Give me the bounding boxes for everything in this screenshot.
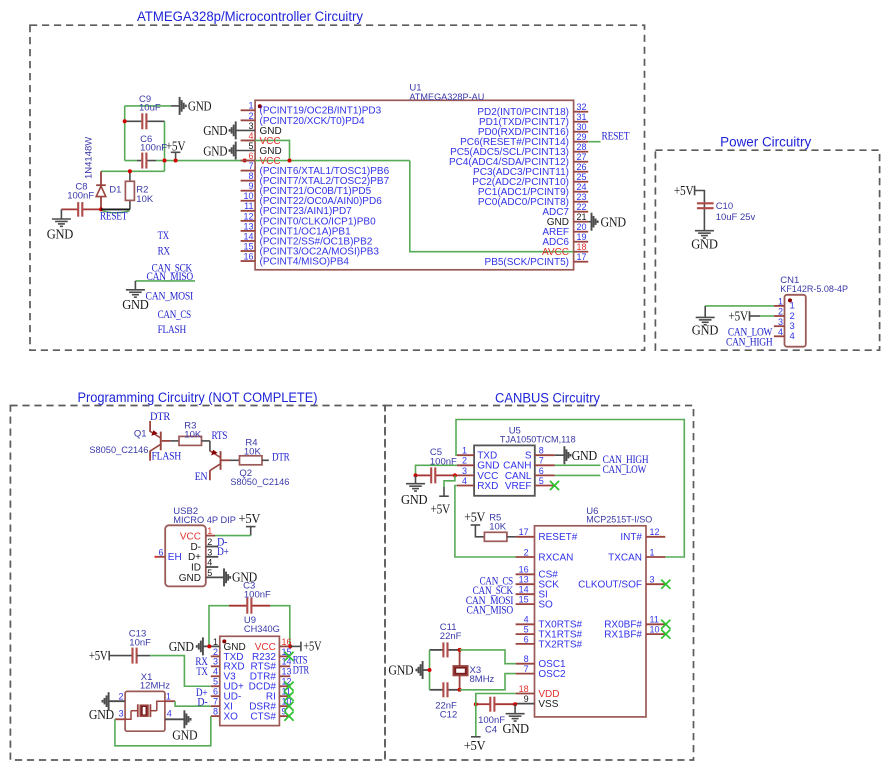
- ground GND (C5 left): [415, 475, 417, 483]
- svg-text:RTS: RTS: [212, 428, 228, 442]
- svg-text:8: 8: [524, 654, 529, 664]
- U6 pin 17 RESET#: [516, 536, 535, 538]
- svg-text:+5V: +5V: [239, 511, 261, 526]
- U9 pin 5 UD+: [211, 685, 220, 687]
- ground GND (CAN_MISO wire): [134, 281, 136, 290]
- svg-text:FLASH: FLASH: [158, 322, 187, 336]
- wire C13 to U9 UD+ (green): [150, 656, 211, 687]
- svg-text:17: 17: [519, 527, 529, 537]
- svg-text:12: 12: [650, 527, 660, 537]
- U6 pin 4 TX0RTS#: [516, 623, 535, 625]
- svg-text:+5V: +5V: [464, 510, 486, 525]
- svg-text:15: 15: [519, 595, 529, 605]
- U5 pin 8 S: [535, 454, 555, 456]
- U1 pin 31 PD1(TXD/PCINT17): [574, 121, 589, 123]
- U5 pin 6 CANL: [535, 474, 555, 476]
- U9 pin 2 TXD: [211, 655, 220, 657]
- svg-text:+5V: +5V: [464, 738, 486, 753]
- svg-text:GND: GND: [601, 215, 627, 230]
- svg-text:CAN_HIGH: CAN_HIGH: [726, 335, 773, 349]
- wire X1 pin3 to U9 XO (green): [115, 716, 211, 746]
- power +5V (U5 VCC): [444, 475, 455, 487]
- svg-text:10K: 10K: [244, 447, 262, 458]
- svg-text:GND: GND: [503, 721, 530, 736]
- svg-text:RX: RX: [158, 243, 171, 257]
- USB2 pin 4 ID: [206, 566, 219, 568]
- U1 pin 15 (PCINT3/OC2A/MOSI)PB3: [241, 250, 256, 252]
- svg-text:20: 20: [577, 222, 587, 232]
- svg-text:16: 16: [243, 251, 253, 261]
- svg-text:FLASH: FLASH: [152, 448, 182, 462]
- svg-text:2: 2: [207, 537, 212, 547]
- X1 crystal element: [131, 710, 137, 712]
- U1 pin 29 PC6(RESET#/PCINT14): [574, 141, 589, 143]
- diode D1 1N4148W: [100, 171, 102, 185]
- svg-text:28: 28: [577, 142, 587, 152]
- svg-text:13: 13: [243, 221, 253, 231]
- wire +5V to C4/VDD (green): [476, 694, 516, 737]
- wire +5V rail to U1 VCC pins (green): [124, 106, 126, 161]
- U1 pin 28 PC5(ADC5/SCL/PCINT13): [574, 151, 589, 153]
- ground GND (X1 pin4): [183, 710, 185, 728]
- U1 pin 20 AREF: [574, 231, 589, 233]
- svg-text:7: 7: [248, 161, 253, 171]
- svg-text:CAN_MOSI: CAN_MOSI: [146, 289, 194, 303]
- svg-text:2: 2: [248, 111, 253, 121]
- svg-text:3: 3: [207, 547, 212, 557]
- CN1 pin 1: [774, 305, 785, 307]
- svg-text:9: 9: [524, 694, 529, 704]
- svg-text:GND: GND: [89, 707, 115, 722]
- svg-text:CTS#: CTS#: [250, 712, 276, 723]
- svg-text:GND: GND: [179, 573, 201, 584]
- U6 pin 8 OSC1: [516, 663, 535, 665]
- svg-text:PB5(SCK/PCINT5): PB5(SCK/PCINT5): [485, 257, 569, 268]
- svg-text:Q1: Q1: [134, 429, 147, 440]
- U9 pin 13 DTR#: [279, 675, 290, 677]
- ground GND (U1 pin5): [236, 150, 255, 152]
- ground GND (X1 pin2): [108, 692, 110, 710]
- U6 pin 3 CLKOUT/SOF: [646, 583, 665, 585]
- svg-text:4: 4: [207, 558, 212, 568]
- svg-text:1N4148W: 1N4148W: [84, 137, 95, 179]
- svg-text:Programming Circuitry (NOT COM: Programming Circuitry (NOT COMPLETE): [78, 390, 318, 405]
- U6 pin 10 RX1BF#: [646, 633, 665, 635]
- svg-text:GND: GND: [691, 237, 718, 252]
- U6 pin 11 RX0BF#: [646, 623, 665, 625]
- no-connect X (U5 VREF): [550, 481, 559, 490]
- svg-text:(PCINT4/MISO)PB4: (PCINT4/MISO)PB4: [260, 256, 350, 267]
- svg-text:100nF: 100nF: [430, 456, 457, 467]
- svg-text:4: 4: [524, 615, 529, 625]
- svg-text:+5V: +5V: [674, 183, 694, 198]
- svg-text:GND: GND: [203, 143, 228, 158]
- wire X3 to OSC2 (green): [460, 674, 516, 690]
- svg-text:+5V: +5V: [728, 309, 748, 324]
- svg-text:3: 3: [248, 121, 253, 131]
- ic U1 ATMEGA328P-AU body: [255, 100, 573, 269]
- net label CAN_HIGH with wire (U5 CANH): [555, 464, 601, 466]
- USB2 pin 5 GND: [206, 576, 224, 578]
- svg-text:8: 8: [213, 707, 218, 717]
- svg-text:VREF: VREF: [505, 481, 532, 492]
- svg-text:2: 2: [462, 456, 467, 466]
- svg-text:100nF: 100nF: [140, 142, 167, 153]
- svg-text:+5V: +5V: [303, 638, 321, 653]
- svg-text:KF142R-5.08-4P: KF142R-5.08-4P: [780, 284, 848, 295]
- svg-text:7: 7: [213, 697, 218, 707]
- no-connect X (U9 pins 12-9): [284, 682, 293, 691]
- svg-text:5: 5: [207, 568, 212, 578]
- svg-text:1: 1: [207, 526, 212, 536]
- U1 pin 1 (PCINT19/OC2B/INT1)PD3: [241, 109, 256, 111]
- svg-text:D1: D1: [109, 185, 121, 196]
- svg-text:+5V: +5V: [166, 139, 186, 154]
- svg-text:19: 19: [577, 232, 587, 242]
- U9 pin1 marker dot: [222, 639, 226, 643]
- resistor R2 10K: [129, 171, 131, 181]
- svg-text:S8050_C2146: S8050_C2146: [89, 445, 148, 456]
- svg-text:GND: GND: [169, 639, 195, 654]
- U5 pin 5 VREF: [535, 485, 555, 487]
- ground GND (CN1 pin1): [704, 306, 706, 318]
- U6 pin 14 SI: [516, 593, 535, 595]
- U6 pin 5 TX1RTS#: [516, 633, 535, 635]
- wire VCC pin4 branch (green): [245, 140, 290, 160]
- svg-text:Power Circuitry: Power Circuitry: [720, 134, 811, 149]
- svg-text:VSS: VSS: [538, 699, 558, 710]
- ground GND (USB2 pin5): [223, 568, 225, 586]
- power +5V (U9 pin16): [288, 644, 292, 648]
- svg-text:7: 7: [539, 456, 544, 466]
- no-connect X (U9 pin15): [284, 652, 293, 661]
- svg-text:32: 32: [577, 102, 587, 112]
- svg-text:GND: GND: [172, 727, 198, 742]
- resistor R4 10K: [230, 459, 240, 461]
- wire AVCC branch (green): [410, 161, 574, 252]
- svg-text:6: 6: [248, 151, 253, 161]
- U1 pin 25 PC2(ADC2/PCINT10): [574, 181, 589, 183]
- svg-text:ID: ID: [191, 562, 201, 573]
- svg-text:OSC2: OSC2: [538, 669, 566, 680]
- svg-text:4: 4: [778, 327, 783, 337]
- capacitor C9: [125, 120, 142, 122]
- svg-text:CH340G: CH340G: [244, 624, 280, 635]
- ground GND (C10): [695, 230, 714, 232]
- svg-text:22: 22: [577, 202, 587, 212]
- U6 pin 9 VSS: [516, 703, 535, 705]
- svg-text:1: 1: [650, 547, 655, 557]
- svg-text:4: 4: [462, 476, 467, 486]
- svg-text:31: 31: [577, 112, 587, 122]
- section box: CANBUS Circuitry: [385, 406, 694, 761]
- svg-text:6: 6: [158, 547, 163, 557]
- U9 pin 12 DCD#: [279, 685, 290, 687]
- wire RESET net (green): [101, 170, 165, 172]
- USB2 pin 6 EH: [155, 556, 166, 558]
- wire C3 to U9 pins 1/16 (green): [209, 606, 229, 647]
- svg-text:GND: GND: [188, 99, 212, 114]
- ground GND (top, right of C9): [171, 105, 180, 107]
- svg-text:4: 4: [248, 131, 253, 141]
- svg-text:TXCAN: TXCAN: [608, 552, 642, 563]
- svg-text:3: 3: [119, 708, 124, 718]
- svg-text:C4: C4: [485, 724, 497, 735]
- svg-text:GND: GND: [47, 227, 74, 242]
- capacitor C4 100nF: [476, 703, 490, 705]
- U6 pin 18 VDD: [516, 693, 535, 695]
- USB2 pin 2 D-: [206, 546, 219, 548]
- svg-text:+5V: +5V: [89, 648, 108, 663]
- svg-text:1: 1: [166, 692, 171, 702]
- svg-text:C12: C12: [440, 709, 457, 720]
- svg-text:1: 1: [462, 446, 467, 456]
- ground GND (below C8): [60, 209, 62, 219]
- svg-text:12MHz: 12MHz: [140, 680, 170, 691]
- section box: Power Circuitry: [655, 150, 879, 350]
- svg-text:DTR: DTR: [293, 663, 310, 677]
- U1 pin 17 PB5(SCK/PCINT5): [574, 261, 589, 263]
- wire crystal gnd loop left (green): [429, 650, 431, 690]
- svg-text:DTR: DTR: [272, 450, 290, 464]
- CN1 pin 2: [774, 315, 785, 317]
- U1 pin 16 (PCINT4/MISO)PB4: [241, 260, 256, 262]
- svg-text:16: 16: [519, 565, 529, 575]
- svg-text:8MHz: 8MHz: [470, 674, 495, 685]
- net label RESET with wire: [99, 207, 103, 211]
- CN1 pin 3: [774, 325, 785, 327]
- wire CN1 pin1 to GND (green): [705, 305, 774, 307]
- svg-text:13: 13: [282, 667, 292, 677]
- U6 pin 12 INT#: [646, 536, 665, 538]
- U9 pin 7 XI: [211, 705, 220, 707]
- transistor Q1 S8050_C2146: [149, 421, 151, 432]
- svg-text:12: 12: [243, 211, 253, 221]
- U6 pin 1 TXCAN: [646, 556, 665, 558]
- svg-text:XO: XO: [224, 712, 239, 723]
- svg-text:29: 29: [577, 132, 587, 142]
- ground GND (U9 pin1): [202, 637, 204, 655]
- U6 pin 16 CS#: [516, 573, 535, 575]
- wire USB2 pin1 VCC (green): [215, 535, 251, 537]
- U1 pin 4 VCC: [241, 139, 256, 141]
- section box: ATMEGA328p/Microcontroller Circuitry: [30, 25, 645, 350]
- svg-text:18: 18: [519, 684, 529, 694]
- svg-text:+5V: +5V: [431, 501, 451, 516]
- svg-text:CLKOUT/SOF: CLKOUT/SOF: [578, 580, 642, 591]
- svg-text:TX: TX: [196, 664, 208, 678]
- svg-text:MICRO 4P DIP: MICRO 4P DIP: [173, 515, 236, 526]
- svg-text:5: 5: [539, 476, 544, 486]
- svg-text:18: 18: [577, 242, 587, 252]
- svg-text:30: 30: [577, 122, 587, 132]
- U9 pin 11 RI: [279, 695, 290, 697]
- svg-text:RESET: RESET: [602, 129, 631, 143]
- svg-text:DTR: DTR: [150, 409, 170, 423]
- U1 pin 26 PC3(ADC3/PCINT11): [574, 171, 589, 173]
- U1 pin1 marker dot: [258, 104, 262, 108]
- svg-text:5: 5: [524, 625, 529, 635]
- USB2 pin 1 VCC: [206, 535, 215, 537]
- U6 pin 2 RXCAN: [516, 556, 535, 558]
- svg-text:10K: 10K: [136, 194, 154, 205]
- svg-text:GND: GND: [692, 323, 719, 338]
- power +5V (C4): [471, 736, 481, 738]
- svg-text:3: 3: [213, 657, 218, 667]
- svg-text:MCP2515T-I/SO: MCP2515T-I/SO: [586, 515, 652, 526]
- power +5V (rail): [175, 152, 177, 160]
- U9 pin 16 VCC: [279, 645, 290, 647]
- svg-text:2: 2: [118, 692, 123, 702]
- svg-text:1: 1: [248, 101, 253, 111]
- junction dots on +5V rail: [123, 119, 127, 123]
- transistor Q2 S8050_C2146: [209, 441, 211, 452]
- svg-text:25: 25: [577, 172, 587, 182]
- svg-text:C10: C10: [716, 201, 733, 212]
- ground GND (X3 bias): [422, 661, 424, 679]
- svg-text:VCC: VCC: [180, 531, 201, 542]
- svg-text:ATMEGA328P-AU: ATMEGA328P-AU: [409, 92, 484, 103]
- net label RESET with wire (U1 pin29): [588, 141, 600, 143]
- svg-text:RXD: RXD: [477, 481, 498, 492]
- capacitor C12 22nF: [430, 689, 444, 691]
- svg-text:10: 10: [243, 191, 253, 201]
- U1 pin 9 (PCINT21/OC0B/T1)PD5: [241, 190, 256, 192]
- svg-text:100nF: 100nF: [67, 191, 94, 202]
- svg-text:9: 9: [248, 181, 253, 191]
- U1 pin 19 ADC6: [574, 241, 589, 243]
- U9 pin 10 DSR#: [279, 705, 290, 707]
- svg-text:4: 4: [167, 708, 172, 718]
- U5 pin 4 RXD: [457, 485, 474, 487]
- U5 pin 7 CANH: [535, 464, 555, 466]
- svg-text:14: 14: [243, 231, 253, 241]
- svg-text:17: 17: [577, 252, 587, 262]
- svg-text:9: 9: [282, 707, 287, 717]
- U1 pin 11 (PCINT23/AIN1)PD7: [241, 210, 256, 212]
- U1 pin 10 (PCINT22/OC0A/AIN0)PD6: [241, 200, 256, 202]
- U1 pin 24 PC1(ADC1/PCINT9): [574, 191, 589, 193]
- U1 pin 12 (PCINT0/CLKO/ICP1)PB0: [241, 220, 256, 222]
- svg-text:CANBUS Circuitry: CANBUS Circuitry: [495, 391, 600, 406]
- svg-text:S8050_C2146: S8050_C2146: [230, 477, 289, 488]
- svg-text:TX: TX: [158, 228, 170, 242]
- svg-text:10uF: 10uF: [139, 103, 161, 114]
- svg-text:TJA1050T/CM,118: TJA1050T/CM,118: [500, 435, 576, 446]
- wire X3 to OSC1 (green): [460, 650, 516, 664]
- wire C9 top to GND (green): [125, 105, 171, 107]
- svg-text:RESET: RESET: [100, 209, 128, 223]
- svg-text:13: 13: [519, 575, 529, 585]
- capacitor C10 10uF 25v: [697, 202, 714, 204]
- U1 pin 23 PC0(ADC0/PCINT8): [574, 201, 589, 203]
- svg-text:ATMEGA328p/Microcontroller Cir: ATMEGA328p/Microcontroller Circuitry: [137, 9, 363, 24]
- U6 pin 7 OSC2: [516, 673, 535, 675]
- svg-text:15: 15: [243, 241, 253, 251]
- svg-text:RX1BF#: RX1BF#: [604, 630, 642, 641]
- svg-text:10: 10: [650, 625, 660, 635]
- svg-text:EN: EN: [195, 469, 208, 483]
- U9 pin 3 RXD: [211, 665, 220, 667]
- capacitor C6: [137, 160, 141, 162]
- svg-text:21: 21: [577, 212, 587, 222]
- wire C9 right to rail (green): [164, 121, 166, 171]
- svg-text:7: 7: [524, 664, 529, 674]
- svg-text:10nF: 10nF: [129, 637, 151, 648]
- svg-text:23: 23: [577, 192, 587, 202]
- U1 pin 8 (PCINT7/XTAL2/TOSC2)PB7: [241, 180, 256, 182]
- svg-text:GND: GND: [572, 448, 598, 463]
- svg-text:3: 3: [778, 317, 783, 327]
- svg-text:11: 11: [244, 201, 253, 211]
- svg-text:6: 6: [213, 687, 218, 697]
- svg-text:5: 5: [248, 141, 253, 151]
- U1 pin 30 PD0(RXD/PCINT16): [574, 131, 589, 133]
- svg-text:CAN_MISO: CAN_MISO: [467, 602, 514, 616]
- section box: Programming Circuitry: [10, 406, 385, 761]
- CN1 pin1 marker dot: [788, 298, 792, 302]
- svg-text:6: 6: [539, 466, 544, 476]
- svg-text:RESET#: RESET#: [538, 532, 577, 543]
- ground GND (U5 pin8 S): [555, 454, 565, 456]
- U9 pin 6 UD-: [211, 695, 220, 697]
- USB2 pin 3 D+: [206, 556, 219, 558]
- wire U5 RXD to U6 RXCAN (green): [455, 486, 516, 558]
- svg-text:14: 14: [519, 585, 529, 595]
- capacitor C8 100nF: [61, 208, 78, 210]
- svg-text:GND: GND: [401, 492, 428, 507]
- svg-text:3: 3: [462, 466, 467, 476]
- U6 pin 15 SO: [516, 603, 535, 605]
- resistor R3 10K: [170, 440, 179, 442]
- svg-text:11: 11: [650, 615, 659, 625]
- ground GND (U1 pin21): [588, 221, 591, 223]
- svg-text:1: 1: [778, 297, 783, 307]
- svg-text:4: 4: [213, 667, 218, 677]
- svg-text:SO: SO: [538, 600, 553, 611]
- U1 pin 14 (PCINT2/SS#/OC1B)PB2: [241, 240, 256, 242]
- U1 pin 13 (PCINT1/OC1A)PB1: [241, 230, 256, 232]
- svg-text:TX2RTS#: TX2RTS#: [538, 639, 582, 650]
- U9 pin 4 V3: [211, 675, 220, 677]
- svg-text:26: 26: [577, 162, 587, 172]
- U1 pin 21 GND: [574, 221, 589, 223]
- U6 pin 6 TX2RTS#: [516, 643, 535, 645]
- U1 pin 18 AVCC: [574, 251, 589, 253]
- svg-text:1: 1: [213, 637, 218, 647]
- svg-text:INT#: INT#: [620, 532, 642, 543]
- svg-text:24: 24: [577, 182, 587, 192]
- U5 pin 2 GND: [457, 464, 474, 466]
- svg-text:10K: 10K: [489, 522, 507, 533]
- U6 pin 13 SCK: [516, 583, 535, 585]
- svg-text:2: 2: [524, 547, 529, 557]
- U1 pin 22 ADC7: [574, 211, 589, 213]
- ground GND (U6 VSS): [514, 704, 516, 714]
- svg-text:RXCAN: RXCAN: [538, 552, 573, 563]
- U1 pin 27 PC4(ADC4/SDA/PCINT12): [574, 161, 589, 163]
- svg-text:8: 8: [248, 171, 253, 181]
- svg-text:2: 2: [213, 647, 218, 657]
- svg-text:D+: D+: [217, 544, 229, 558]
- crystal X3 8MHz: [459, 650, 461, 666]
- U1 pin 32 PD2(INT0/PCINT18): [574, 111, 589, 113]
- ground GND (U1 pin3): [236, 129, 255, 131]
- U1 pin 2 (PCINT20/XCK/T0)PD4: [241, 119, 256, 121]
- net label CAN_LOW with wire (U5 CANL): [555, 474, 601, 476]
- svg-text:GND: GND: [388, 663, 414, 678]
- wire U5 TXD to U6 TXCAN loop (green): [456, 420, 684, 558]
